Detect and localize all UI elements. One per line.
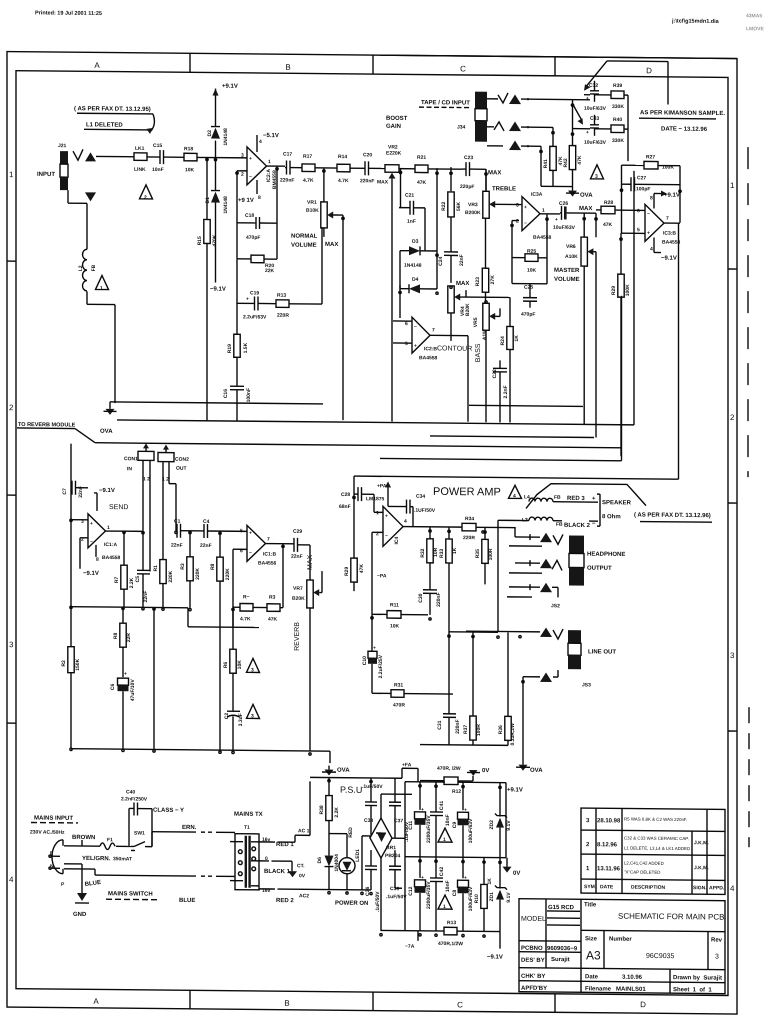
feedback R5 R4: [232, 549, 234, 607]
svg-text:47K: 47K: [359, 564, 365, 574]
svg-text:220K: 220K: [195, 568, 201, 580]
svg-text:8.12.96: 8.12.96: [597, 842, 618, 848]
svg-text:1 2: 1 2: [143, 476, 150, 482]
svg-text:C25: C25: [524, 285, 533, 291]
ground OVA: [328, 766, 330, 770]
svg-text:100K: 100K: [625, 284, 631, 296]
svg-text:BLACK 2: BLACK 2: [564, 523, 591, 529]
svg-text:OVA: OVA: [337, 768, 350, 774]
svg-text:−: −: [90, 539, 93, 545]
capacitor C41: [435, 782, 437, 812]
capacitor C12: [419, 857, 421, 878]
svg-text:MAX: MAX: [456, 281, 469, 287]
contact 2: [523, 676, 540, 678]
svg-text:R33: R33: [439, 549, 445, 558]
svg-text:1.5K: 1.5K: [243, 342, 249, 353]
op-amp IC2:B contour: [412, 317, 430, 353]
svg-text:+9.1V: +9.1V: [507, 787, 523, 793]
svg-text:R27: R27: [646, 154, 655, 160]
wire IC4 pin2: [372, 531, 383, 533]
svg-text:C41: C41: [439, 801, 445, 810]
svg-text:2200uF/35V: 2200uF/35V: [426, 815, 432, 843]
svg-text:3: 3: [730, 651, 735, 660]
svg-text:10K: 10K: [390, 623, 400, 629]
pin8: [256, 180, 258, 194]
svg-text:68nF: 68nF: [339, 504, 351, 510]
svg-text:C9: C9: [452, 822, 458, 829]
svg-text:4.7K: 4.7K: [240, 616, 251, 622]
svg-text:22nF: 22nF: [459, 254, 465, 266]
svg-text:C18: C18: [245, 213, 254, 219]
svg-text:R39: R39: [613, 83, 622, 89]
svg-text:56K: 56K: [456, 201, 462, 211]
svg-text:R31: R31: [394, 682, 403, 688]
svg-text:C40: C40: [126, 789, 135, 795]
tape jack contact 2: [494, 122, 504, 131]
resistor R32: [429, 527, 431, 539]
rail +9.1: [405, 781, 445, 783]
wire pin6 IC1:B: [233, 548, 247, 550]
svg-text:1N4148: 1N4148: [223, 128, 229, 146]
svg-text:2200uF/35V: 2200uF/35V: [426, 881, 432, 909]
pin8 +9.1V: [653, 193, 655, 208]
svg-text:2: 2: [730, 413, 735, 422]
line out jack JS3: [568, 630, 581, 643]
svg-text:C29: C29: [293, 529, 302, 535]
svg-text:47K: 47K: [577, 155, 583, 165]
svg-text:R11: R11: [390, 602, 399, 608]
ground 0V mid: [506, 858, 508, 867]
svg-text:C11: C11: [408, 821, 414, 830]
red 2 / AC2: [259, 888, 272, 890]
svg-text:CON2: CON2: [175, 457, 189, 463]
svg-text:LM1875: LM1875: [366, 496, 385, 502]
svg-text:1: 1: [100, 285, 103, 291]
svg-text:+9.1V: +9.1V: [664, 193, 680, 199]
capacitor C5: [142, 530, 144, 570]
svg-text:2.2nF: 2.2nF: [503, 385, 509, 398]
svg-text:7: 7: [432, 327, 435, 333]
speaker bracket: [599, 494, 601, 526]
svg-text:LINE OUT: LINE OUT: [588, 649, 616, 655]
svg-text:−5.1V: −5.1V: [263, 133, 279, 139]
resistor R3: [189, 531, 191, 557]
output node vertical: [276, 166, 278, 259]
svg-text:+: +: [586, 130, 589, 136]
svg-text:+9.1V: +9.1V: [222, 84, 238, 90]
bus y421 thick OVA rail: [117, 420, 634, 425]
svg-text:1: 1: [443, 837, 446, 843]
svg-text:Drawn by Surajit: Drawn by Surajit: [673, 975, 722, 981]
svg-text:9609036−9: 9609036−9: [547, 946, 578, 952]
capacitor C18: [237, 222, 256, 224]
resistor R29b 47K: [353, 494, 355, 558]
svg-text:C31: C31: [437, 720, 443, 729]
wire VR1 max to bus: [342, 215, 344, 420]
svg-text:R10: R10: [474, 894, 480, 903]
svg-text:C19: C19: [250, 290, 259, 296]
bus y458: [380, 458, 622, 460]
svg-text:R6: R6: [223, 662, 229, 669]
svg-text:MAINLS01: MAINLS01: [616, 987, 646, 993]
svg-text:1: 1: [107, 525, 110, 531]
bridge BR1: [370, 818, 392, 858]
wire VR3 wiper to IC3A pin3: [495, 203, 522, 205]
warning triangle 4: [509, 485, 522, 498]
capacitor C15: [147, 156, 160, 158]
capacitor C39: [394, 850, 396, 866]
svg-text:R13: R13: [447, 920, 456, 926]
contact 3: [509, 586, 540, 588]
svg-text:AC2: AC2: [299, 893, 309, 899]
svg-text:3.10.96: 3.10.96: [622, 975, 643, 981]
svg-text:BA4558: BA4558: [533, 235, 552, 241]
svg-text:R29: R29: [611, 286, 617, 295]
svg-text:C34: C34: [416, 494, 425, 500]
svg-text:+: +: [592, 496, 596, 502]
svg-text:10uF/63V: 10uF/63V: [553, 225, 576, 231]
speaker return wire: [498, 519, 529, 521]
svg-text:CT.: CT.: [297, 863, 305, 869]
resistor R19: [236, 303, 238, 334]
svg-text:+: +: [249, 156, 252, 162]
svg-text:L1 DELETE, L3,L4 & LK1 ADDED: L1 DELETE, L3,L4 & LK1 ADDED: [624, 845, 690, 851]
svg-text:POWER AMP: POWER AMP: [433, 486, 501, 499]
diode D6: [325, 856, 334, 867]
svg-text:4.7K: 4.7K: [303, 178, 314, 184]
op-amp IC1:A: [88, 514, 106, 548]
svg-text:MAX: MAX: [325, 242, 338, 248]
svg-text:C12: C12: [408, 886, 414, 895]
capacitor C26 electrolytic: [560, 212, 561, 214]
svg-text:NORMAL: NORMAL: [291, 234, 318, 240]
zone ticks bottom: [189, 990, 191, 1009]
svg-text:LINK: LINK: [134, 167, 146, 173]
svg-text:220pF: 220pF: [460, 184, 474, 190]
svg-text:G15 RCD: G15 RCD: [548, 905, 575, 911]
svg-text:R8: R8: [210, 563, 216, 570]
wire IC3A output: [540, 213, 560, 215]
svg-text:E220K: E220K: [386, 151, 402, 157]
svg-text:FB: FB: [554, 495, 561, 501]
wire AC1: [279, 841, 295, 843]
zener ZD1: [499, 858, 501, 889]
wire CON2 pins down: [162, 462, 164, 560]
svg-text:C10: C10: [362, 656, 368, 665]
svg-text:OVA: OVA: [530, 768, 543, 774]
svg-text:CLASS − Y: CLASS − Y: [153, 808, 184, 814]
rail bottom of reverb: [71, 607, 188, 608]
svg-text:GND: GND: [73, 912, 87, 918]
0V rail: [420, 744, 508, 747]
svg-text:A: A: [93, 997, 99, 1006]
warning triangle 3: [247, 658, 260, 672]
svg-text:−9.1V: −9.1V: [83, 571, 99, 577]
svg-text:4: 4: [730, 884, 735, 893]
svg-text:VOLUME: VOLUME: [291, 243, 317, 249]
svg-text:R23: R23: [475, 277, 481, 286]
warning triangle 1: [438, 828, 452, 842]
pot VR1 normal volume: [323, 168, 325, 202]
svg-text:220nF: 220nF: [280, 177, 294, 183]
svg-text:150K: 150K: [75, 658, 81, 670]
pot VR6 master volume: [595, 213, 597, 237]
svg-text:1: 1: [9, 170, 14, 179]
svg-text:R3: R3: [180, 563, 186, 570]
bridge - drop: [380, 858, 382, 931]
svg-text:INPUT: INPUT: [37, 172, 55, 178]
svg-text:VR1: VR1: [307, 200, 317, 206]
svg-text:B20K: B20K: [292, 596, 305, 602]
svg-text:C15: C15: [153, 143, 162, 149]
svg-text:+FA: +FA: [402, 762, 412, 768]
resistor R7: [123, 531, 125, 565]
svg-text:R1: R1: [153, 565, 159, 572]
svg-text:2.2K: 2.2K: [334, 807, 340, 818]
warning triangle 1: [438, 895, 452, 909]
svg-text:220R: 220R: [463, 535, 475, 541]
svg-text:22nF: 22nF: [171, 543, 183, 549]
svg-text:J.K.M.: J.K.M.: [694, 840, 709, 846]
svg-text:BA4558: BA4558: [102, 555, 121, 561]
svg-text:AS PER KIMANSON SAMPLE.: AS PER KIMANSON SAMPLE.: [640, 110, 725, 117]
+9.1V: [213, 89, 219, 96]
svg-text:R18: R18: [184, 146, 193, 152]
svg-text:−: −: [647, 211, 650, 217]
svg-text:B20K: B20K: [465, 303, 471, 316]
svg-text:MASTER: MASTER: [554, 268, 580, 274]
svg-text:0.33R,2W: 0.33R,2W: [510, 723, 516, 746]
svg-text:BASS: BASS: [475, 343, 482, 362]
svg-text:22K: 22K: [265, 268, 275, 274]
svg-text:VR3: VR3: [468, 202, 478, 208]
svg-text:MAINS INPUT: MAINS INPUT: [34, 816, 73, 822]
svg-text:C7: C7: [62, 488, 68, 495]
svg-text:MAX: MAX: [377, 179, 389, 185]
resistor R37: [472, 631, 474, 716]
svg-text:100R: 100R: [476, 724, 482, 736]
svg-text:28.10.98: 28.10.98: [597, 818, 621, 824]
svg-text:BLUE: BLUE: [84, 880, 101, 888]
svg-text:RED 1: RED 1: [276, 842, 294, 848]
resistor R8: [219, 531, 221, 557]
capacitor C16: [236, 357, 238, 386]
svg-text:9.1V: 9.1V: [506, 892, 512, 903]
svg-text:6: 6: [637, 208, 640, 214]
svg-text:D2: D2: [207, 130, 213, 137]
power amp input bus: [354, 476, 679, 479]
svg-text:PB204: PB204: [385, 853, 401, 859]
svg-text:RED 2: RED 2: [276, 898, 294, 904]
ground OVA: [519, 765, 528, 771]
pot VR7 reverb: [309, 545, 311, 580]
capacitor C28: [354, 493, 358, 495]
svg-text:D6: D6: [317, 857, 323, 864]
svg-text:R7: R7: [114, 576, 120, 583]
svg-text:C6: C6: [110, 683, 116, 690]
svg-text:TAPE / CD INPUT: TAPE / CD INPUT: [421, 100, 470, 106]
-PA feedback: [371, 532, 373, 614]
svg-text:8 Ohm: 8 Ohm: [602, 514, 621, 520]
svg-text:PCBNO: PCBNO: [521, 946, 543, 952]
svg-text:1: 1: [376, 510, 379, 516]
svg-text:8: 8: [650, 195, 653, 201]
pot VR5: [483, 303, 489, 330]
speaker annotation box: [526, 483, 646, 509]
svg-text:−PA: −PA: [377, 573, 387, 579]
wire CON1 pins down: [142, 460, 144, 530]
diode D1: [215, 158, 217, 191]
svg-text:47K: 47K: [603, 222, 613, 228]
bridge + riser: [380, 794, 382, 818]
svg-text:BOOST: BOOST: [386, 116, 408, 122]
svg-text:−7A: −7A: [405, 944, 415, 950]
svg-text:+: +: [647, 230, 650, 236]
svg-text:REVERB: REVERB: [294, 622, 301, 651]
svg-text:2: 2: [9, 403, 14, 412]
op-amp IC1:B: [247, 525, 266, 561]
svg-text:−: −: [414, 324, 417, 330]
resistor R35: [484, 527, 486, 539]
svg-text:IC1:B: IC1:B: [263, 552, 276, 558]
svg-text:47K: 47K: [417, 180, 427, 186]
svg-text:22nF: 22nF: [200, 543, 212, 549]
svg-text:+: +: [246, 296, 249, 302]
svg-text:AC 1: AC 1: [298, 828, 310, 834]
lower loop wire: [188, 626, 259, 629]
svg-text:220nF: 220nF: [436, 592, 442, 607]
wire out: [169, 483, 176, 485]
op-amp IC2:A: [247, 147, 267, 185]
svg-text:"X"CAP DELETED: "X"CAP DELETED: [624, 869, 660, 874]
svg-text:CON1: CON1: [124, 456, 138, 462]
svg-text:A10K: A10K: [565, 254, 578, 260]
svg-text:R40: R40: [613, 117, 622, 123]
bottom rail: [71, 749, 330, 751]
ground OVA on rail: [110, 401, 115, 403]
svg-text:VR7: VR7: [293, 586, 303, 592]
svg-text:C: C: [460, 64, 466, 73]
svg-text:+: +: [385, 513, 388, 519]
svg-text:10uF/63V: 10uF/63V: [584, 140, 607, 146]
svg-text:SPEAKER: SPEAKER: [602, 500, 632, 506]
svg-text:ERN.: ERN.: [182, 825, 197, 831]
svg-text:10nF: 10nF: [445, 814, 451, 826]
svg-text:4: 4: [259, 139, 262, 145]
svg-text:Title: Title: [584, 902, 597, 908]
capacitor C27: [622, 183, 632, 185]
svg-text:4: 4: [404, 519, 407, 525]
op-amp IC3:A: [522, 197, 540, 231]
svg-text:DESCRIPTION: DESCRIPTION: [631, 885, 666, 891]
svg-text:+: +: [524, 205, 527, 211]
svg-text:MAX: MAX: [307, 554, 314, 570]
svg-text:220nF: 220nF: [360, 178, 374, 184]
svg-text:3: 3: [241, 153, 244, 159]
svg-text:Size: Size: [585, 936, 598, 942]
resistor R6: [232, 607, 234, 649]
svg-text:350mAT: 350mAT: [113, 856, 132, 862]
svg-text:A: A: [94, 61, 100, 70]
resistor R1: [160, 560, 166, 584]
svg-text:RED 3: RED 3: [567, 496, 585, 502]
warning triangle 1: [96, 275, 109, 289]
ground CT 0V: [288, 871, 297, 877]
svg-text:47uF/10V: 47uF/10V: [130, 679, 136, 702]
svg-text:1K: 1K: [452, 547, 458, 554]
capacitor C2: [232, 673, 234, 711]
svg-text:−9.1V: −9.1V: [487, 954, 503, 960]
svg-text:C5: C5: [135, 576, 141, 583]
svg-text:R37: R37: [463, 725, 469, 734]
svg-text:IC3:B: IC3:B: [663, 231, 676, 237]
svg-text:R24: R24: [500, 336, 506, 345]
bus y435: [430, 436, 594, 438]
svg-text:2.2nF/250V: 2.2nF/250V: [121, 796, 148, 802]
svg-text:TREBLE: TREBLE: [492, 186, 516, 192]
svg-text:1: 1: [443, 904, 446, 910]
svg-text:.1uF/50V: .1uF/50V: [386, 894, 407, 900]
capacitor C21: [399, 207, 410, 209]
wire VR4 bottom: [450, 313, 452, 341]
svg-text:D4: D4: [412, 277, 419, 283]
svg-text:−9.1V: −9.1V: [210, 287, 226, 293]
svg-text:BLUE: BLUE: [179, 898, 195, 904]
svg-text:10uF/63V: 10uF/63V: [584, 106, 607, 112]
svg-text:−: −: [249, 174, 252, 180]
svg-text:−: −: [592, 521, 596, 527]
svg-text:R−: R−: [243, 594, 250, 600]
resistor R15: [206, 157, 208, 219]
svg-text:IN: IN: [127, 466, 132, 472]
svg-text:C27: C27: [637, 175, 646, 181]
wire VR6 top: [583, 213, 585, 237]
wire R39/R40 to R27 node: [627, 95, 629, 161]
svg-text:R32: R32: [420, 548, 426, 557]
svg-text:3.3uF: 3.3uF: [238, 713, 244, 726]
svg-text:230V AC./50Hz: 230V AC./50Hz: [30, 829, 65, 835]
svg-text:P: P: [61, 882, 65, 888]
left rail: [70, 444, 72, 488]
svg-text:R19: R19: [227, 344, 233, 353]
svg-text:DES' BY: DES' BY: [521, 958, 545, 964]
svg-text:0V: 0V: [299, 873, 306, 879]
svg-text:4: 4: [650, 246, 653, 252]
svg-text:−: −: [524, 221, 527, 227]
svg-text:CONTOUR: CONTOUR: [437, 345, 472, 352]
svg-text:APPD.: APPD.: [709, 885, 725, 891]
revision table: [581, 808, 725, 894]
svg-text:D: D: [646, 66, 652, 75]
svg-text:10K: 10K: [185, 167, 195, 173]
svg-text:VR6: VR6: [566, 244, 576, 250]
svg-text:+: +: [586, 96, 589, 102]
svg-text:R41: R41: [543, 159, 549, 168]
svg-text:B200K: B200K: [465, 210, 481, 216]
svg-text:5: 5: [405, 341, 408, 347]
svg-text:C24: C24: [438, 256, 444, 265]
svg-text:Date: Date: [585, 974, 599, 980]
svg-text:IC2:B: IC2:B: [424, 346, 437, 352]
AC2 riser to bridge: [361, 836, 363, 890]
svg-text:+: +: [373, 645, 376, 651]
warning triangle: [591, 165, 604, 179]
svg-text:R21: R21: [417, 155, 426, 161]
svg-text:D3: D3: [412, 239, 419, 245]
zener ZD2: [499, 783, 501, 817]
warning triangle 2: [140, 185, 153, 199]
capacitor C42: [435, 857, 437, 878]
